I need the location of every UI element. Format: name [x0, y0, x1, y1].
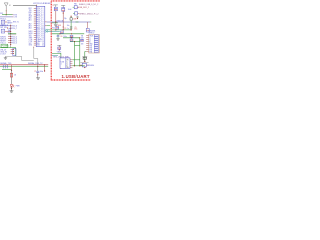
- svg-text:PIO0_1: PIO0_1: [37, 10, 42, 12]
- svg-text:VB: VB: [81, 35, 83, 37]
- IC U1: [36, 6, 45, 46]
- junction J1 pin: [60, 68, 61, 69]
- svg-text:100n: 100n: [63, 36, 67, 38]
- svg-text:100n: 100n: [40, 71, 44, 73]
- crystal Y1: [70, 16, 72, 31]
- switch SW2: [1, 29, 4, 33]
- pin U1 top: [36, 5, 38, 7]
- svg-text:CT16: CT16: [29, 39, 33, 41]
- ground GND2: [10, 91, 14, 93]
- wire across: [80, 62, 88, 64]
- pin drop right: [44, 65, 46, 71]
- bus arrow 2: [45, 31, 48, 33]
- vertical bus J3: [10, 25, 12, 48]
- svg-text:GN: GN: [81, 43, 83, 45]
- svg-text:D+: D+: [89, 39, 91, 41]
- ferrite FB2: [73, 12, 79, 15]
- resistor R1: [10, 73, 12, 77]
- svg-text:16M: 16M: [73, 18, 77, 20]
- svg-text:SH4: SH4: [89, 51, 92, 53]
- svg-text:SHIELD_USB_D_N 1_2: SHIELD_USB_D_N 1_2: [79, 4, 98, 6]
- svg-text:1u: 1u: [67, 28, 69, 30]
- capacitor C1: [54, 5, 58, 11]
- pin tick: [11, 14, 14, 16]
- antenna pin: [5, 9, 7, 15]
- svg-text:CTS: CTS: [14, 17, 18, 19]
- pin U1 bottom stub: [33, 47, 35, 48]
- svg-text:C1: C1: [52, 5, 54, 7]
- svg-text:PIO0_3: PIO0_3: [37, 14, 42, 16]
- J2 pad boxes: [94, 35, 98, 53]
- ground GND4: [54, 23, 58, 26]
- resistor pack RN1: [3, 65, 7, 69]
- svg-text:SCK: SCK: [29, 35, 32, 37]
- wire VBUS down: [52, 53, 61, 58]
- capacitor C10: [81, 39, 84, 41]
- svg-text:PIO1_0: PIO1_0: [37, 23, 42, 25]
- ferrite FB1: [73, 4, 79, 9]
- svg-text:1.USB/UART: 1.USB/UART: [62, 74, 90, 79]
- svg-text:ID: ID: [66, 65, 67, 67]
- USB/UART region dashed border left edge: [50, 1, 52, 80]
- resistor R2 hang: [86, 22, 89, 32]
- pin U1 right RXD: [45, 25, 47, 27]
- switch SW1: [1, 20, 5, 24]
- svg-text:PIO0_5: PIO0_5: [11, 42, 17, 44]
- wire J2 gnd down: [85, 52, 86, 62]
- pin C7: [37, 66, 39, 71]
- wire UART long: [47, 21, 90, 23]
- pin C2 down: [62, 11, 64, 30]
- wire GND rail: [63, 37, 80, 39]
- svg-text:PIO1_3: PIO1_3: [37, 29, 42, 31]
- svg-text:1: 1: [61, 64, 62, 66]
- junction: [11, 70, 12, 71]
- wire LED chain: [11, 70, 13, 84]
- bus junction dots: [10, 25, 11, 45]
- net stub row 1: [0, 36, 17, 38]
- capacitor C11: [57, 45, 61, 49]
- pin SW2.1: [5, 30, 11, 32]
- wire vertical D-: [79, 38, 81, 66]
- net stub row 3: [0, 40, 17, 42]
- svg-text:VSS: VSS: [37, 45, 40, 47]
- svg-text:SH2: SH2: [89, 47, 92, 49]
- wire VDD top: [13, 5, 37, 7]
- capacitor C12 plates: [70, 27, 72, 28]
- wire power rail: [0, 47, 16, 49]
- svg-text:AD2: AD2: [29, 22, 32, 25]
- wire IC bottom drop: [34, 47, 38, 66]
- svg-text:RXD: RXD: [29, 12, 33, 14]
- U1 inside pin numbers: [42, 8, 44, 47]
- wire power drop: [15, 48, 17, 57]
- J2 pin rows: [86, 36, 88, 52]
- wire teal low: [52, 54, 58, 56]
- antenna ANT1: [4, 3, 8, 9]
- wire bus3: [9, 27, 11, 29]
- wire bus1: [0, 16, 12, 18]
- junction rail: [55, 29, 56, 30]
- capacitor C9: [70, 39, 73, 41]
- svg-text:1K: 1K: [14, 75, 17, 77]
- svg-text:LPC11U14FBD48: LPC11U14FBD48: [33, 3, 51, 5]
- svg-text:PIO1_2: PIO1_2: [37, 27, 42, 29]
- svg-text:22p: 22p: [64, 18, 67, 20]
- U1 inside pin names: [37, 8, 43, 47]
- wire D+ rail: [70, 41, 80, 43]
- wire 3V3 rail: [52, 33, 84, 35]
- svg-text:USB: USB: [61, 61, 64, 63]
- junction: [59, 49, 60, 50]
- junction: [37, 74, 38, 75]
- wire green row: [8, 33, 16, 35]
- pin drop R: [11, 65, 13, 70]
- svg-text:MISO: MISO: [29, 31, 34, 33]
- svg-text:PIO0_6: PIO0_6: [37, 20, 42, 22]
- wire bus green: [0, 65, 48, 67]
- junction: [63, 13, 64, 14]
- svg-text:VBUS: VBUS: [89, 35, 93, 37]
- ground GND3: [36, 78, 40, 80]
- wire RXD stub: [47, 25, 50, 27]
- svg-text:R10: R10: [52, 28, 55, 30]
- svg-text:PIO1_1: PIO1_1: [37, 25, 42, 27]
- junction: [6, 14, 7, 15]
- wire vertical D+: [74, 42, 76, 66]
- svg-text:PIO0_4: PIO0_4: [37, 16, 42, 18]
- svg-text:D+: D+: [66, 63, 68, 65]
- svg-text:C7: C7: [34, 71, 36, 73]
- junction: [74, 41, 75, 42]
- junction: [71, 33, 72, 34]
- wire green lower: [2, 69, 12, 71]
- svg-text:SW1: SW1: [7, 21, 11, 23]
- net tick: [90, 21, 91, 23]
- svg-text:MINIUSB: MINIUSB: [89, 31, 96, 33]
- svg-text:SW2: SW2: [8, 30, 12, 32]
- J1 pin numbers: [66, 59, 68, 69]
- frame label POWER: [1, 44, 8, 47]
- wire to ground: [11, 87, 13, 91]
- svg-text:RST_N: RST_N: [13, 22, 19, 24]
- LED D1: [10, 85, 14, 88]
- svg-text:SH3: SH3: [89, 49, 92, 51]
- wire J1 pin1: [72, 59, 79, 61]
- svg-text:VB: VB: [66, 59, 68, 61]
- svg-text:3V3: 3V3: [0, 13, 3, 15]
- pin SW1.1: [5, 21, 7, 23]
- net tick green: [6, 10, 7, 12]
- svg-text:GND: GND: [29, 45, 33, 47]
- svg-text:SERIAL_RXD_TX: SERIAL_RXD_TX: [28, 62, 43, 65]
- capacitor C6: [57, 34, 60, 39]
- junction: [55, 21, 56, 22]
- svg-text:PIO0_5: PIO0_5: [37, 18, 42, 20]
- svg-text:DP: DP: [81, 39, 83, 41]
- svg-text:PIO1_7: PIO1_7: [37, 37, 42, 39]
- net stub row 2: [0, 38, 17, 40]
- wire J1 gnd: [72, 65, 84, 67]
- svg-text:PIO1_4: PIO1_4: [37, 31, 42, 33]
- wire gray row: [8, 34, 16, 36]
- bus arrow 1: [45, 29, 48, 31]
- wire bus red: [0, 64, 48, 66]
- fuse F1: [80, 63, 88, 68]
- wire D- link: [75, 45, 80, 47]
- svg-text:PIO1_5: PIO1_5: [37, 33, 42, 35]
- U1 outside net labels: [29, 8, 34, 47]
- svg-text:MINI_USB_B_SMD: MINI_USB_B_SMD: [53, 56, 69, 58]
- svg-text:SERIAL_TXD: SERIAL_TXD: [0, 62, 12, 65]
- U1 left pin stubs: [34, 8, 36, 45]
- connector J2 (right): [89, 35, 100, 53]
- junction 3v3: [59, 33, 60, 34]
- tee junction: [76, 16, 79, 19]
- pin U1 right TXD: [45, 21, 47, 23]
- svg-text:PIO0_0: PIO0_0: [37, 8, 42, 10]
- J2 inside labels: [89, 35, 93, 53]
- J1 right pins: [70, 60, 72, 68]
- junction: [71, 37, 72, 38]
- svg-text:USB_DM 1_2: USB_DM 1_2: [79, 7, 89, 9]
- varistor RV1: [82, 57, 87, 62]
- wire bus2: [0, 25, 11, 27]
- svg-text:PIO0_2: PIO0_2: [37, 12, 42, 14]
- wire VBUS rail: [49, 29, 72, 31]
- svg-text:10uF: 10uF: [68, 9, 72, 11]
- USB/UART region dashed border top edge: [51, 0, 100, 2]
- svg-text:SCL: SCL: [29, 14, 32, 16]
- svg-text:ISP_EN: ISP_EN: [0, 27, 7, 29]
- USB connector J1: [60, 58, 70, 68]
- svg-text:FB1: FB1: [74, 4, 77, 6]
- capacitor C8: [70, 35, 73, 37]
- svg-text:GN: GN: [66, 67, 68, 69]
- wire ANT net: [2, 14, 12, 16]
- ground GND5: [56, 39, 59, 41]
- svg-text:VCC: VCC: [29, 43, 33, 45]
- pin tick: [7, 27, 9, 29]
- junction: [74, 65, 75, 66]
- capacitor C4: [56, 27, 59, 29]
- svg-text:PIO1_6: PIO1_6: [37, 35, 42, 37]
- svg-text:MOSI: MOSI: [29, 33, 33, 35]
- svg-text:VCC: VCC: [74, 28, 78, 30]
- pin tick: [11, 16, 14, 18]
- svg-text:USB_DM: USB_DM: [57, 20, 64, 22]
- net stub row 4: [0, 42, 17, 44]
- svg-text:SHIELD_USB_D_P 1_2: SHIELD_USB_D_P 1_2: [79, 14, 98, 16]
- svg-text:CT32: CT32: [29, 41, 33, 43]
- junction: [44, 70, 45, 71]
- wire gray staircase: [16, 56, 34, 60]
- wire gnd spur: [52, 22, 58, 24]
- pin C1 down: [55, 11, 57, 22]
- svg-text:SHIELD: SHIELD: [89, 33, 96, 35]
- svg-text:SSEL: SSEL: [29, 37, 33, 39]
- net tick mid: [76, 21, 79, 23]
- svg-text:PIO0_7: PIO0_7: [37, 22, 42, 24]
- svg-text:TXD: TXD: [29, 10, 33, 12]
- svg-text:PWR: PWR: [16, 86, 21, 88]
- svg-text:C3: C3: [64, 28, 66, 30]
- svg-text:V_OUT: V_OUT: [0, 53, 6, 55]
- pin U2.3: [11, 53, 13, 55]
- svg-text:VBUS: VBUS: [57, 51, 61, 53]
- svg-text:10n: 10n: [67, 25, 70, 27]
- junction: [11, 88, 12, 89]
- capacitor C5: [61, 31, 64, 33]
- wire gray to ground: [6, 55, 16, 57]
- USB/UART region dashed border bottom edge: [51, 79, 91, 81]
- pin U2.1: [11, 49, 13, 51]
- wire teal rail: [49, 31, 60, 33]
- svg-text:SH1: SH1: [89, 45, 92, 47]
- svg-text:PIO0_7: PIO0_7: [11, 28, 17, 30]
- ground GND1: [4, 56, 7, 59]
- capacitor C2: [61, 5, 65, 11]
- J2 outside labels: [81, 35, 84, 45]
- J1 inner column: [65, 58, 67, 68]
- capacitor C7: [36, 71, 39, 72]
- svg-text:MF-R050: MF-R050: [88, 65, 94, 67]
- svg-text:RST: RST: [29, 8, 32, 10]
- svg-text:C6: C6: [60, 36, 62, 38]
- regulator U2: [13, 49, 16, 56]
- pin U2.2: [11, 51, 13, 53]
- svg-text:DM: DM: [81, 37, 84, 39]
- svg-text:E1: E1: [9, 5, 11, 7]
